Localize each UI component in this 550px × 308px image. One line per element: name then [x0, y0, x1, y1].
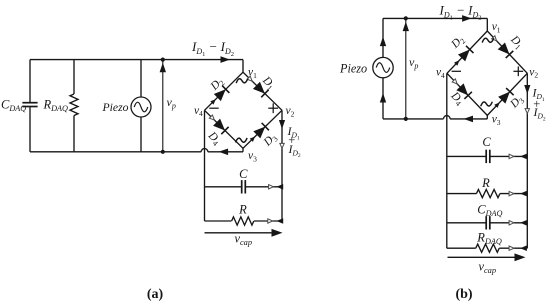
- wire: capacitor C_DAQ branch (figure b): [447, 222, 486, 224]
- wire: bridge edge D3 (a): [243, 110, 282, 148]
- diode D1 (b): [498, 42, 514, 58]
- hollow arrow at C_DAQ branch end (b): [509, 221, 514, 225]
- current arrow I_D1 down on right rail (b): [524, 85, 530, 94]
- svg-text:R: R: [481, 176, 490, 190]
- wire: figure (a) top rail: [30, 59, 243, 61]
- svg-text:(b): (b): [455, 287, 472, 302]
- AC mark tilde near v3 (a): [236, 138, 248, 143]
- wire hop: bottom rail crosses v4 rail (no connection) (b): [444, 116, 451, 119]
- wire: right rail from v2 down (figure b): [526, 73, 528, 248]
- wire: stub from top rail to bridge node v1 (figure a): [242, 60, 244, 73]
- diode D4 (a): [213, 119, 229, 135]
- AC mark tilde near v1 (b): [482, 38, 494, 43]
- voltage annotation v_p line (figure a): [162, 60, 164, 152]
- wire: stub from bridge node v3 to bottom rail (figure b): [486, 115, 488, 119]
- filled arrow from right rail into C branch (a): [276, 184, 283, 190]
- hollow arrow at R branch end (a): [268, 219, 273, 223]
- current arrow up (above piezo): [380, 37, 386, 47]
- resistor R (figure a): [232, 217, 254, 225]
- wire: capacitor C branch (figure a): [205, 186, 242, 188]
- current marker I_D2 hollow on right rail (b): [525, 109, 529, 114]
- node dot v_p bottom (b): [404, 117, 408, 121]
- capacitor C (figure b): [485, 150, 487, 163]
- wire: right rail from v2 down (figure a): [281, 110, 283, 221]
- node dot v_p bottom: [161, 150, 165, 154]
- wire: bridge edge D2 (b): [447, 31, 487, 73]
- hollow arrow at R_DAQ branch end (b): [509, 246, 514, 250]
- wire: bridge edge D4 (b): [447, 73, 487, 115]
- wire: figure (b) bottom rail left of hop: [383, 118, 444, 120]
- hollow arrow at C branch end (b): [509, 154, 514, 158]
- current arrow on edge D3 (a) (filled): [250, 135, 257, 142]
- resistor R (figure b): [476, 190, 500, 198]
- AC mark tilde near v3 (b): [481, 102, 493, 107]
- diode D4 (b): [456, 83, 472, 99]
- filled arrow from right rail into R branch (a): [276, 218, 283, 224]
- node dot v_p top: [161, 58, 165, 62]
- hollow arrow at C branch end (a): [269, 185, 274, 189]
- svg-text:R: R: [238, 202, 247, 216]
- hollow arrow at R branch end (b): [509, 191, 514, 195]
- capacitor C (figure a): [241, 180, 243, 193]
- svg-text:Piezo: Piezo: [102, 101, 129, 114]
- filled arrow from right rail into R branch (b): [520, 191, 527, 197]
- current arrow on edge D4 (a) (hollow): [209, 115, 216, 122]
- polarity minus near v4 (a): [209, 107, 218, 109]
- diode D3 (b): [498, 88, 514, 104]
- polarity plus near v2 (b): [513, 70, 523, 72]
- current arrow (left) on figure (a) bottom rail: [219, 149, 229, 156]
- wire: resistor R branch (figure b): [447, 193, 477, 195]
- resistor R_DAQ (figure a): [73, 60, 75, 94]
- source Piezo (figure b): [382, 18, 384, 57]
- current arrow on edge D1 (b) (hollow): [492, 36, 498, 43]
- diode D2 (a): [214, 86, 230, 102]
- diode D1 (a): [253, 82, 269, 98]
- wire: stub from top rail to bridge node v1 (figure b): [486, 18, 488, 31]
- wire: capacitor C branch (figure b): [447, 155, 486, 157]
- filled arrow from right rail into C_DAQ branch (b): [520, 220, 527, 226]
- capacitor C_DAQ (figure a): [29, 60, 31, 103]
- current arrow up (below piezo): [380, 93, 386, 103]
- current arrow on edge D3 (b) (filled): [494, 101, 501, 108]
- svg-text:(a): (a): [147, 287, 164, 302]
- node dot v_p top (b): [404, 16, 408, 20]
- wire: bridge edge D1 (b): [487, 31, 527, 73]
- current arrow (left) on figure (b) bottom rail: [464, 116, 474, 123]
- diode D2 (b): [458, 46, 474, 62]
- svg-text:C: C: [239, 167, 248, 181]
- wire: left rail from v4 down (figure b): [446, 73, 448, 248]
- wire: resistor R_DAQ branch (figure b): [447, 247, 476, 249]
- polarity minus near v4 (b): [452, 70, 461, 72]
- resistor R_DAQ (figure b): [476, 244, 500, 252]
- wire: resistor R branch (figure a): [205, 220, 232, 222]
- capacitor C_DAQ (figure b): [485, 216, 487, 229]
- wire: figure (b) bottom rail right of hop: [450, 118, 487, 120]
- wire: left rail from v4 down (figure a): [204, 110, 206, 221]
- wire hop: bottom rail crosses v4 rail (no connection): [201, 149, 208, 152]
- current arrow I_D1-I_D2 on top rail (b): [462, 15, 472, 22]
- wire: figure (b) top rail: [383, 17, 487, 19]
- current arrow on edge D2 (a) (filled): [210, 97, 217, 104]
- polarity plus near v2 (a): [268, 107, 278, 109]
- wire: figure (a) bottom rail left of hop: [30, 151, 201, 153]
- voltage arrow v_cap (figure a): [205, 232, 274, 234]
- arrowhead v_p pointing up (b): [403, 22, 409, 32]
- current arrow I_D1 down on right rail (a): [279, 120, 285, 129]
- svg-text:C: C: [482, 135, 491, 149]
- current arrow on edge D2 (b) (filled): [454, 59, 461, 66]
- current arrow I_D1-I_D2 on top rail (figure a): [221, 56, 231, 63]
- arrowhead v_p pointing up: [160, 63, 166, 73]
- wire: stub from bridge node v3 to bottom rail (figure a): [242, 148, 244, 152]
- wire: bridge edge D3 (b): [487, 73, 527, 115]
- wire: figure (a) bottom rail right of hop: [208, 151, 243, 153]
- current marker I_D2 hollow on right rail (a): [280, 143, 284, 148]
- wire: bridge edge D1 (a): [243, 72, 282, 110]
- current arrow on edge D1 (a) (hollow): [247, 76, 254, 83]
- wire: bridge edge D2 (a): [205, 72, 244, 110]
- voltage arrow v_cap (figure b): [448, 256, 517, 258]
- diode D3 (a): [253, 123, 269, 139]
- AC mark tilde near v1 (a): [236, 79, 248, 84]
- voltage annotation v_p line (figure b): [405, 18, 407, 119]
- svg-text:Piezo: Piezo: [339, 61, 367, 75]
- source Piezo (figure a): [140, 60, 142, 97]
- filled arrow from right rail into C branch (b): [520, 154, 527, 160]
- filled arrow from right rail into R_DAQ branch (b): [520, 245, 527, 251]
- current arrow on edge D4 (b) (hollow): [452, 79, 458, 86]
- wire: bridge edge D4 (a): [205, 110, 244, 148]
